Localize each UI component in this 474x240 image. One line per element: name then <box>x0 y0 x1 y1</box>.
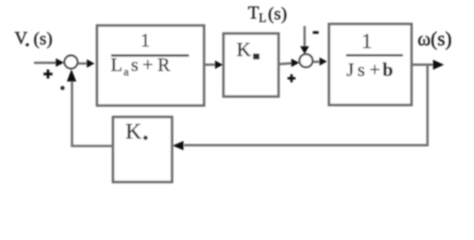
block G1 armature 1/(La s + R) <box>97 26 204 106</box>
node TL(s) disturbance label <box>248 3 287 26</box>
wire G1 to Ka <box>204 64 216 66</box>
svg-text:L: L <box>111 55 123 76</box>
summing junction S1 <box>65 56 78 69</box>
summing junction S2 <box>300 54 313 67</box>
node plus sign at summer 2 <box>288 74 296 82</box>
svg-text:b: b <box>383 60 394 81</box>
svg-text:a: a <box>124 65 130 79</box>
block G2 load 1/(Js + b) <box>329 24 412 105</box>
block Kt feedback gain <box>113 117 172 182</box>
node minus sign at summer 2 <box>313 31 319 34</box>
node plus sign at summer 1 <box>44 70 53 79</box>
svg-text:+: + <box>370 60 381 81</box>
wire G2 to output <box>412 64 435 66</box>
svg-text:ω(s): ω(s) <box>418 29 452 51</box>
svg-text:K: K <box>126 119 142 144</box>
svg-text:1: 1 <box>141 31 151 52</box>
node Vi(s) input label <box>15 28 53 50</box>
svg-text:(s): (s) <box>268 4 287 25</box>
svg-text:V: V <box>15 28 28 48</box>
svg-text:(s): (s) <box>34 29 53 50</box>
svg-text:L: L <box>259 11 267 25</box>
wire summer1 to block G1 <box>78 62 87 64</box>
svg-text:T: T <box>248 3 259 23</box>
node minus dot at summer 1 feedback <box>60 86 64 90</box>
svg-text:J: J <box>347 60 354 81</box>
wire Ka to summer 2 <box>279 62 293 65</box>
svg-text:+: + <box>143 55 154 76</box>
svg-text:K: K <box>237 39 252 61</box>
svg-text:1: 1 <box>362 29 373 53</box>
wire summer2 to block G2 <box>313 61 321 63</box>
wire input to summer 1 <box>34 62 57 64</box>
wire Kt back to summer 1 <box>72 79 113 147</box>
svg-text:R: R <box>158 55 171 76</box>
svg-text:s: s <box>358 60 365 81</box>
svg-text:s: s <box>131 55 138 76</box>
block Ka gain <box>224 34 279 97</box>
wire TL(s) into summer 2 <box>303 26 305 47</box>
wire feedback branch down from output <box>184 65 428 146</box>
